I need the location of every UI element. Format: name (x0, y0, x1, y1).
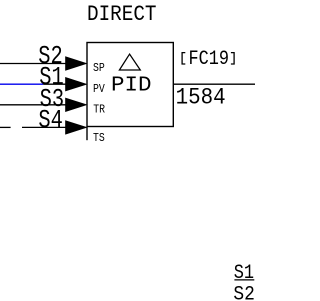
svg-text:S4: S4 (38, 106, 63, 135)
svg-text:TS: TS (93, 131, 105, 145)
svg-text:1584: 1584 (176, 85, 226, 112)
svg-text:DIRECT: DIRECT (87, 2, 157, 27)
svg-text:TR: TR (93, 103, 105, 117)
svg-text:SP: SP (93, 61, 105, 75)
svg-text:PID: PID (111, 73, 152, 97)
svg-text:S2: S2 (233, 283, 255, 301)
svg-text:PV: PV (93, 82, 105, 96)
svg-text:FC19: FC19 (189, 48, 230, 71)
svg-text:S1: S1 (234, 262, 254, 285)
